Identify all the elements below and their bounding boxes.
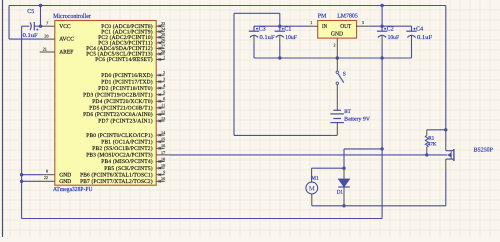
transistor Q1 BS250P xyxy=(446,141,454,206)
svg-text:IN: IN xyxy=(322,24,328,30)
pin 6 PD4 xyxy=(92,96,165,105)
svg-text:GND: GND xyxy=(331,32,344,38)
svg-text:GND: GND xyxy=(59,179,71,185)
svg-text:1: 1 xyxy=(310,20,312,25)
wire +5V right drop to Q1 source xyxy=(445,6,447,141)
svg-text:0.1uF: 0.1uF xyxy=(23,33,39,39)
svg-text:28: 28 xyxy=(161,49,165,54)
svg-text:PM: PM xyxy=(318,13,327,19)
wire GND left vertical xyxy=(21,26,23,218)
svg-text:12: 12 xyxy=(161,109,165,114)
svg-text:PB6 (PCINT6/XTAL1/TOSC1): PB6 (PCINT6/XTAL1/TOSC1) xyxy=(80,172,153,178)
pin 14 PB0 xyxy=(86,130,166,139)
svg-text:0.1uF: 0.1uF xyxy=(417,35,433,41)
svg-text:11: 11 xyxy=(161,103,165,108)
svg-text:PB4 (MISO/PCINT4): PB4 (MISO/PCINT4) xyxy=(101,159,152,165)
svg-text:26: 26 xyxy=(161,38,165,43)
pin 19 PB5 xyxy=(104,163,165,172)
wire battery positive to +9V riser xyxy=(234,134,330,136)
svg-text:C4: C4 xyxy=(416,26,423,32)
pin 15 PB1 xyxy=(101,137,165,146)
pin 22 GND xyxy=(22,175,55,181)
svg-text:25: 25 xyxy=(161,32,165,37)
svg-text:PD3 (PCINT19/OC2B/INT1): PD3 (PCINT19/OC2B/INT1) xyxy=(83,92,153,98)
svg-text:17: 17 xyxy=(161,150,165,155)
pin 4 PD2 xyxy=(98,83,166,92)
node junction GND pin 8 xyxy=(20,173,23,176)
wire +5V top rail xyxy=(9,5,446,7)
svg-text:PB1 (OC1A/PCINT1): PB1 (OC1A/PCINT1) xyxy=(101,139,152,145)
svg-text:21: 21 xyxy=(43,46,47,51)
svg-text:8: 8 xyxy=(46,169,48,174)
wire OUT rail xyxy=(369,25,411,27)
pin 2 LM7805 xyxy=(334,38,338,58)
svg-text:1: 1 xyxy=(163,54,165,59)
pin 28 PC5 xyxy=(86,49,165,58)
svg-text:VCC: VCC xyxy=(59,24,71,30)
svg-text:10uF: 10uF xyxy=(388,35,400,41)
node junction top rail / OUT drop xyxy=(380,4,383,7)
pin 3 LM7805 xyxy=(356,20,369,26)
svg-text:10: 10 xyxy=(161,176,165,181)
svg-text:PB3 (MOSI/OC2A/PCINT3): PB3 (MOSI/OC2A/PCINT3) xyxy=(86,153,153,159)
wire +9V left drop to battery xyxy=(233,13,235,135)
svg-text:23: 23 xyxy=(161,21,165,26)
pin 2 PD0 xyxy=(101,70,165,79)
node junction R1 top / +5V xyxy=(444,128,447,131)
node junction VCC pin / C5 / +5V drop xyxy=(39,25,42,28)
svg-text:PD5 (PCINT21/OC0B/T1): PD5 (PCINT21/OC0B/T1) xyxy=(89,106,153,112)
svg-text:9: 9 xyxy=(163,170,165,175)
svg-text:47K: 47K xyxy=(428,141,437,147)
motor M1 xyxy=(306,168,319,206)
pin 27 PC4 xyxy=(86,43,165,52)
pin 1 LM7805 xyxy=(307,20,318,26)
pin 9 PB6 xyxy=(80,170,165,179)
resistor R1 47K xyxy=(425,130,446,155)
svg-text:16: 16 xyxy=(161,143,165,148)
capacitor C4 xyxy=(406,26,433,58)
battery BT 9V xyxy=(330,106,370,135)
svg-text:GND: GND xyxy=(59,172,71,178)
node junction GND pin 22 xyxy=(20,180,23,183)
svg-text:PB2 (SS/OC1B/PCINT2): PB2 (SS/OC1B/PCINT2) xyxy=(92,146,153,152)
pin 21 AREF xyxy=(40,46,55,52)
wire +5V drop to LM7805 OUT xyxy=(381,6,383,27)
wire +9V rail xyxy=(234,12,280,14)
svg-text:PC6 (PCINT14/RESET): PC6 (PCINT14/RESET) xyxy=(95,57,153,63)
pin 23 PC0 xyxy=(101,21,165,30)
wire IN rail xyxy=(254,25,307,27)
pin 20 AVCC xyxy=(43,34,55,40)
switch S xyxy=(336,58,346,106)
svg-text:C1: C1 xyxy=(284,26,291,32)
node junction motor/diode top xyxy=(342,167,345,170)
svg-text:13: 13 xyxy=(161,116,165,121)
svg-text:OUT: OUT xyxy=(340,24,351,30)
pin 10 PB7 xyxy=(80,176,165,185)
svg-text:M: M xyxy=(309,186,315,193)
svg-text:AVCC: AVCC xyxy=(59,37,74,43)
svg-text:3: 3 xyxy=(163,77,165,82)
pin 25 PC2 xyxy=(98,32,165,41)
wire GND bottom rail xyxy=(22,218,383,220)
pin 12 PD6 xyxy=(83,109,165,118)
wire motor rail drop xyxy=(343,149,345,169)
wire AVCC feed xyxy=(9,38,43,40)
wire motor/diode top link xyxy=(312,167,344,169)
svg-text:LM7805: LM7805 xyxy=(337,13,358,19)
capacitor C3 xyxy=(249,26,276,58)
wire +9V right drop to LM7805 IN xyxy=(279,13,281,26)
svg-text:6: 6 xyxy=(163,96,165,101)
wire PB3 gate line to Q1 gate xyxy=(170,154,448,156)
node junction R1 bottom / gate xyxy=(425,153,428,156)
svg-text:BS250P: BS250P xyxy=(474,148,494,154)
svg-text:3: 3 xyxy=(362,20,364,25)
pin 18 PB4 xyxy=(101,156,165,165)
pin 13 PD7 xyxy=(98,116,165,125)
wire drain rail xyxy=(312,205,446,207)
voltage regulator PM LM7805 body xyxy=(318,21,357,39)
svg-text:5: 5 xyxy=(163,90,165,95)
svg-text:20: 20 xyxy=(44,34,48,39)
svg-text:PB5 (SCK/PCINT5): PB5 (SCK/PCINT5) xyxy=(104,166,152,172)
node junction GND riser / motor rail xyxy=(380,147,383,150)
svg-text:15: 15 xyxy=(161,137,165,142)
node junction C2 bottom / GND rail / riser xyxy=(380,56,383,59)
capacitor C1 xyxy=(275,26,298,58)
svg-text:PB7 (PCINT7/XTAL2/TOSC2): PB7 (PCINT7/XTAL2/TOSC2) xyxy=(80,179,153,185)
wire VCC pin stub xyxy=(41,25,44,27)
wire GND rail under regulator xyxy=(254,57,412,59)
capacitor C5 xyxy=(23,9,41,39)
wire +5V drop to VCC/C5 xyxy=(40,6,42,27)
svg-text:Microcontroller: Microcontroller xyxy=(53,13,92,20)
diode D1 xyxy=(337,168,350,206)
svg-text:19: 19 xyxy=(161,163,165,168)
sheet border left edge xyxy=(2,0,4,237)
pin 11 PD5 xyxy=(89,103,165,112)
svg-text:PD4 (PCINT20/XCK/T0): PD4 (PCINT20/XCK/T0) xyxy=(92,99,153,105)
pin 8 GND xyxy=(22,169,55,175)
node junction C1 bottom / GND rail xyxy=(278,56,281,59)
wire GND riser right xyxy=(381,58,383,219)
svg-text:22: 22 xyxy=(44,175,48,180)
svg-text:10uF: 10uF xyxy=(285,35,297,41)
microcontroller U1 ATmega328P-PU body xyxy=(55,21,156,186)
wire C3 top corner xyxy=(253,26,255,31)
wire C4 corner drop xyxy=(411,26,413,31)
svg-text:2: 2 xyxy=(334,42,336,47)
svg-text:PD7 (PCINT23/AIN1): PD7 (PCINT23/AIN1) xyxy=(98,119,153,125)
pin 26 PC3 xyxy=(98,38,165,47)
svg-text:C3: C3 xyxy=(259,26,266,32)
pin 5 PD3 xyxy=(83,90,165,99)
svg-text:7: 7 xyxy=(46,21,48,26)
svg-text:D1: D1 xyxy=(337,189,343,195)
pin 7 VCC xyxy=(43,21,55,27)
svg-text:18: 18 xyxy=(161,156,165,161)
wire motor top rail to GND riser xyxy=(344,148,382,150)
svg-text:PD2 (PCINT18/INT0): PD2 (PCINT18/INT0) xyxy=(98,86,153,92)
pin 17 PB3 xyxy=(86,150,169,159)
svg-text:BT: BT xyxy=(344,109,351,115)
capacitor C2 xyxy=(377,26,400,58)
svg-text:0.1uF: 0.1uF xyxy=(260,35,276,41)
svg-text:PB0 (PCINT0/CLKO/ICP1): PB0 (PCINT0/CLKO/ICP1) xyxy=(86,133,153,139)
pin 3 PD1 xyxy=(101,77,165,86)
node junction top rail / VCC drop xyxy=(39,4,42,7)
pin 24 PC1 xyxy=(101,27,166,36)
node junction pin2 / GND rail / switch xyxy=(336,56,339,59)
wire +5V left drop to AVCC xyxy=(8,6,10,40)
svg-text:2: 2 xyxy=(163,70,165,75)
node junction C1/IN xyxy=(278,25,281,28)
svg-text:27: 27 xyxy=(161,43,165,48)
svg-text:M1: M1 xyxy=(311,175,319,181)
svg-text:PD1 (PCINT17/TXD): PD1 (PCINT17/TXD) xyxy=(101,79,152,85)
svg-text:C5: C5 xyxy=(27,9,34,15)
svg-text:PD0 (PCINT16/RXD): PD0 (PCINT16/RXD) xyxy=(101,73,152,79)
svg-text:PD6 (PCINT22/OC0A/AIN0): PD6 (PCINT22/OC0A/AIN0) xyxy=(83,112,153,118)
svg-text:S: S xyxy=(343,72,346,78)
svg-text:ATmega328P-PU: ATmega328P-PU xyxy=(53,186,93,193)
pin 1 PC6 xyxy=(95,54,165,63)
svg-text:Battery 9V: Battery 9V xyxy=(344,117,370,123)
node junction OUT / C2 xyxy=(380,25,383,28)
node junction motor/diode bottom xyxy=(342,204,345,207)
svg-text:AREF: AREF xyxy=(59,50,73,56)
pin 16 PB2 xyxy=(92,143,165,152)
wire C5 left lead to GND vertical xyxy=(22,25,30,27)
svg-text:C2: C2 xyxy=(387,26,394,32)
